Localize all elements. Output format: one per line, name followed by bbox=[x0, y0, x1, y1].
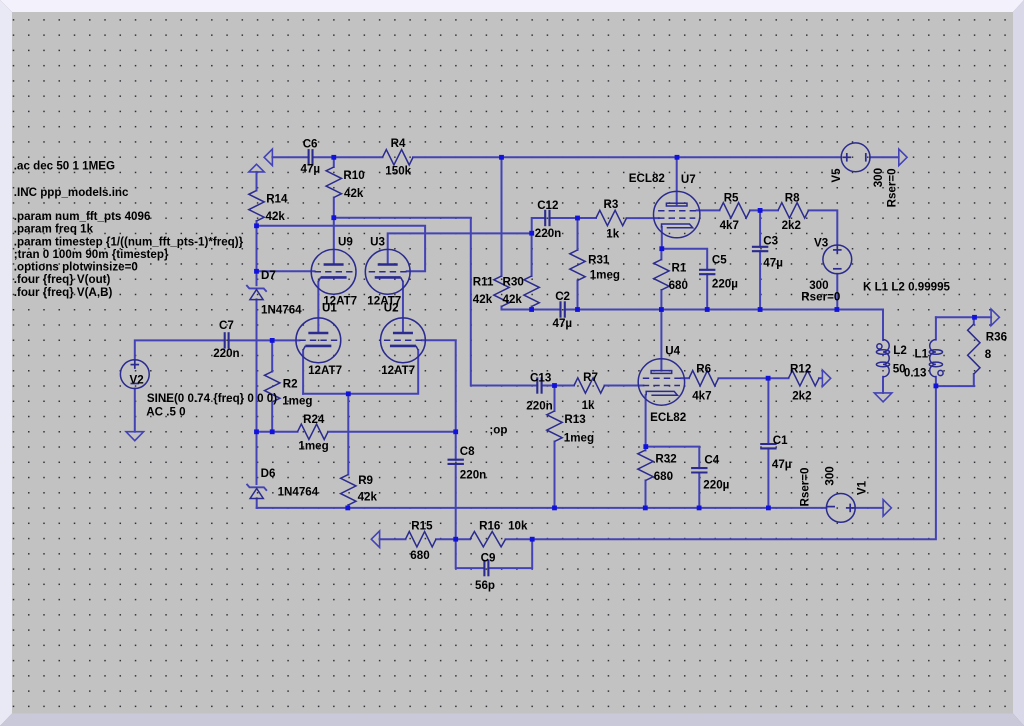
resistor R6 bbox=[689, 371, 719, 386]
wire: R32 top lead bbox=[645, 447, 647, 451]
port arrow input (left) bbox=[264, 149, 272, 166]
wire: U9 grid tap bbox=[257, 270, 315, 272]
resistor R4 bbox=[383, 150, 414, 165]
svg-text:.param freq 1k: .param freq 1k bbox=[14, 223, 94, 236]
svg-text:42k: 42k bbox=[473, 293, 493, 306]
resistor R9 bbox=[341, 475, 356, 506]
wire: R5 to R8 bbox=[750, 209, 778, 211]
wire: R9 top lead bbox=[347, 394, 349, 475]
svg-text:R7: R7 bbox=[583, 371, 598, 384]
window frame bevel bbox=[0, 0, 1024, 12]
svg-text:220µ: 220µ bbox=[712, 278, 738, 291]
capacitor C12 bbox=[544, 210, 546, 226]
resistor R31 bbox=[570, 250, 585, 281]
wire: R11 top lead from B+ rail bbox=[501, 157, 503, 276]
wire: V1 to port arrow bbox=[855, 507, 883, 509]
junction at 935.9,385.9 bbox=[934, 384, 939, 389]
svg-text:R15: R15 bbox=[411, 519, 433, 532]
wire: bottom ground rail bbox=[257, 507, 827, 509]
wire: U7 anode lead bbox=[676, 157, 678, 204]
capacitor C6 bbox=[308, 149, 310, 165]
capacitor C4 bbox=[691, 467, 707, 469]
wire: R30 bottom lead bbox=[531, 307, 533, 310]
svg-text:1k: 1k bbox=[582, 399, 595, 412]
svg-text:V1: V1 bbox=[856, 480, 869, 495]
wire: node to R24 bbox=[257, 431, 298, 433]
svg-text:L2: L2 bbox=[893, 344, 907, 357]
wire: R30 top lead bbox=[531, 233, 533, 276]
svg-text:R12: R12 bbox=[790, 362, 811, 375]
resistor R16 bbox=[470, 532, 506, 547]
voltage source V5 bbox=[841, 143, 870, 172]
svg-text:R36: R36 bbox=[986, 330, 1008, 343]
wire: R36 top lead bbox=[973, 317, 975, 324]
port arrow V1 right bbox=[883, 500, 891, 517]
capacitor C9 bbox=[483, 560, 485, 576]
resistor R2 bbox=[265, 372, 280, 403]
wire: C3 bottom lead bbox=[759, 251, 761, 309]
L1 phase dot bbox=[938, 370, 943, 375]
svg-text:.four {freq} V(out): .four {freq} V(out) bbox=[14, 273, 111, 286]
svg-text:.param timestep {1/((num_fft_p: .param timestep {1/((num_fft_pts-1)*freq… bbox=[14, 235, 244, 248]
svg-text:42k: 42k bbox=[344, 187, 364, 200]
svg-text:K L1 L2 0.99995: K L1 L2 0.99995 bbox=[863, 280, 951, 293]
svg-text:;tran 0 100m 90m {timestep}: ;tran 0 100m 90m {timestep} bbox=[14, 248, 169, 261]
pentode U7 ECL82 bbox=[654, 191, 700, 237]
ground symbol at L2 bbox=[874, 393, 892, 402]
wire: R3 to U7 grid bbox=[627, 217, 659, 219]
triode U2 12AT7 bbox=[381, 318, 426, 363]
resistor R12 bbox=[789, 371, 820, 386]
port arrow R14 top bbox=[249, 164, 264, 172]
wire: R32 bottom lead bbox=[645, 481, 647, 508]
voltage source V1 bbox=[826, 494, 855, 523]
port arrow output right bbox=[991, 309, 999, 326]
wire: node to C9 bbox=[456, 539, 485, 568]
wire: R36 bottom to L1 bbox=[936, 374, 974, 386]
port arrow R15 left bbox=[371, 531, 379, 548]
wire: D7 anode down bbox=[256, 299, 258, 431]
svg-text:220n: 220n bbox=[535, 227, 561, 240]
svg-text:300: 300 bbox=[872, 168, 885, 187]
wire: feedback to L1 bottom bbox=[506, 386, 936, 539]
junction at 554.5,507.9 bbox=[552, 506, 557, 511]
svg-text:R13: R13 bbox=[564, 413, 586, 426]
wire: C1 bottom lead bbox=[767, 448, 769, 508]
junction at 760.1,309.5 bbox=[758, 307, 763, 312]
port arrow R12 right bbox=[822, 370, 830, 387]
svg-text:SINE(0 0.74 {freq} 0 0 0): SINE(0 0.74 {freq} 0 0 0) bbox=[147, 392, 277, 405]
svg-text:1meg: 1meg bbox=[298, 440, 328, 453]
wire: rail to U4 anode bbox=[660, 310, 662, 371]
svg-text:V2: V2 bbox=[130, 373, 144, 386]
svg-text:U1: U1 bbox=[322, 302, 337, 315]
svg-text:AC .5 0: AC .5 0 bbox=[146, 406, 185, 419]
resistor R10 bbox=[326, 167, 341, 198]
wire: cathode rail U1-U2 bbox=[303, 350, 418, 394]
svg-text:C4: C4 bbox=[704, 453, 719, 466]
svg-text:C5: C5 bbox=[712, 253, 727, 266]
svg-text:C1: C1 bbox=[773, 434, 788, 447]
svg-text:1meg: 1meg bbox=[564, 432, 594, 445]
svg-text:56p: 56p bbox=[475, 579, 495, 592]
svg-text:;op: ;op bbox=[489, 424, 507, 437]
wire: R11 bottom lead bbox=[501, 307, 503, 310]
svg-text:.param num_fft_pts 4096: .param num_fft_pts 4096 bbox=[14, 210, 151, 223]
svg-text:4k7: 4k7 bbox=[720, 219, 739, 232]
wire: V5 to output arrow bbox=[870, 156, 899, 158]
svg-text:L1: L1 bbox=[915, 348, 929, 361]
zener diode D6 1N4764 bbox=[247, 484, 267, 491]
junction at 645.8,446.6 bbox=[643, 444, 648, 449]
resistor R11 bbox=[494, 276, 509, 307]
wire: U3 cathode to U2 anode bbox=[402, 282, 404, 333]
junction at 256.5,271.3 bbox=[254, 269, 259, 274]
resistor R1 bbox=[654, 260, 669, 291]
capacitor C1 bbox=[760, 443, 776, 445]
wire: R14 bottom lead bbox=[256, 221, 258, 226]
svg-text:12AT7: 12AT7 bbox=[308, 364, 342, 377]
wire: C3 top lead bbox=[759, 210, 761, 246]
triode U9 12AT7 bbox=[311, 249, 356, 294]
junction at 333.8,157.3 bbox=[331, 155, 336, 160]
svg-text:D6: D6 bbox=[261, 467, 276, 480]
svg-text:R10: R10 bbox=[343, 169, 364, 182]
wire: U9 cathode to U1 anode bbox=[317, 282, 319, 333]
triode U1 12AT7 bbox=[296, 318, 341, 363]
junction at 836.9,309.5 bbox=[835, 307, 840, 312]
wire: U9 anode lead bbox=[333, 218, 335, 265]
junction at 333.8,217.7 bbox=[331, 215, 336, 220]
svg-text:47µ: 47µ bbox=[763, 257, 783, 270]
wire: C7 to U1 grid bbox=[229, 339, 300, 341]
wire: R14 top lead bbox=[256, 172, 258, 191]
svg-text:U9: U9 bbox=[338, 235, 353, 248]
resistor R30 bbox=[524, 276, 539, 307]
wire: R10 bottom lead bbox=[333, 198, 335, 218]
resistor R36 bbox=[968, 324, 980, 374]
svg-text:2k2: 2k2 bbox=[782, 219, 801, 232]
wire: R13 bottom lead bbox=[554, 442, 556, 508]
wire: L2 to ground bbox=[882, 377, 884, 393]
svg-text:R4: R4 bbox=[391, 137, 406, 150]
junction at 501.5,157.3 bbox=[499, 155, 504, 160]
pentode U4 ECL82 bbox=[638, 359, 684, 405]
svg-text:ECL82: ECL82 bbox=[629, 172, 665, 185]
svg-text:R24: R24 bbox=[303, 413, 325, 426]
svg-text:42k: 42k bbox=[358, 490, 378, 503]
L2 phase dot bbox=[877, 344, 882, 349]
wire: U1 cathode lead bbox=[302, 350, 304, 394]
svg-text:R16: R16 bbox=[479, 519, 501, 532]
svg-text:47µ: 47µ bbox=[553, 317, 573, 330]
svg-text:10k: 10k bbox=[508, 519, 528, 532]
svg-text:220n: 220n bbox=[213, 347, 239, 360]
ground symbol at V2 bbox=[126, 432, 144, 441]
wire: C6 to R4 bbox=[313, 156, 383, 158]
junction at 645.3,507.9 bbox=[643, 506, 648, 511]
wire: U7 cathode lead bbox=[661, 227, 663, 249]
wire: rail to C2 bbox=[502, 309, 561, 311]
wire: V2 to C7 bbox=[135, 340, 225, 359]
svg-text:U7: U7 bbox=[681, 173, 696, 186]
svg-text:220n: 220n bbox=[460, 469, 486, 482]
wire: L1 top lead bbox=[935, 317, 937, 339]
svg-text:1N4764: 1N4764 bbox=[261, 303, 302, 316]
svg-text:8: 8 bbox=[985, 348, 992, 361]
wire: port arrow to R15 bbox=[380, 538, 406, 540]
wire: R14 node to U3 grid bbox=[257, 226, 426, 271]
svg-text:R1: R1 bbox=[672, 261, 687, 274]
triode U3 12AT7 bbox=[365, 249, 410, 294]
svg-text:R32: R32 bbox=[655, 453, 676, 466]
svg-text:.INC ppp_models.inc: .INC ppp_models.inc bbox=[14, 186, 129, 199]
svg-text:R8: R8 bbox=[785, 192, 800, 205]
svg-text:C8: C8 bbox=[460, 445, 475, 458]
junction at 768.4,507.9 bbox=[766, 506, 771, 511]
wire: R15 to R16 bbox=[436, 538, 470, 540]
junction at 455.7,431.8 bbox=[453, 429, 458, 434]
svg-text:V3: V3 bbox=[814, 237, 829, 250]
junction at 256.5,431.8 bbox=[254, 429, 259, 434]
wire: R2 top lead bbox=[271, 340, 273, 371]
wire: C4 bottom lead bbox=[698, 473, 700, 508]
svg-text:220n: 220n bbox=[526, 399, 552, 412]
junction at 577.5,218 bbox=[575, 216, 580, 221]
junction at 661.8,248.7 bbox=[659, 246, 664, 251]
resistor R15 bbox=[406, 532, 437, 547]
svg-text:12AT7: 12AT7 bbox=[381, 364, 415, 377]
junction at 661.4,309.5 bbox=[659, 307, 664, 312]
wire: R12 to arrow bbox=[819, 377, 822, 379]
wire: node to D7 cathode bbox=[256, 226, 258, 285]
voltage source V2 bbox=[120, 360, 149, 389]
svg-text:C13: C13 bbox=[530, 371, 552, 384]
capacitor C5 bbox=[699, 269, 715, 271]
wire: R7 to U4 grid bbox=[605, 385, 644, 387]
capacitor C2 bbox=[559, 301, 561, 317]
svg-text:R11: R11 bbox=[473, 276, 494, 289]
svg-text:.ac dec 50 1 1MEG: .ac dec 50 1 1MEG bbox=[14, 160, 115, 173]
wire: mid rail to L2 bbox=[565, 310, 883, 340]
svg-text:C7: C7 bbox=[219, 319, 234, 332]
wire: C1 top lead bbox=[767, 378, 769, 444]
wire: R24 to C8 node bbox=[328, 431, 456, 433]
svg-text:Rser=0: Rser=0 bbox=[799, 468, 812, 507]
junction at 768.1,378.2 bbox=[766, 376, 771, 381]
junction at 348.3,393.8 bbox=[346, 391, 351, 396]
svg-text:Rser=0: Rser=0 bbox=[885, 168, 898, 207]
wire: R6 to R12 bbox=[719, 377, 789, 379]
wire: cathode node to C5 bbox=[662, 249, 707, 270]
wire: U4 screen to R6 bbox=[681, 377, 689, 379]
svg-text:C9: C9 bbox=[481, 552, 496, 565]
junction at 699.1,507.9 bbox=[697, 506, 702, 511]
svg-text:.options plotwinsize=0: .options plotwinsize=0 bbox=[14, 261, 138, 274]
svg-text:U2: U2 bbox=[384, 302, 399, 315]
svg-text:680: 680 bbox=[669, 279, 688, 292]
capacitor C3 bbox=[752, 246, 768, 248]
wire: C13 to R7 node bbox=[542, 385, 574, 387]
inductor L1 bbox=[930, 340, 936, 377]
svg-text:47µ: 47µ bbox=[772, 458, 792, 471]
wire: U7 screen to R5 bbox=[697, 209, 720, 211]
svg-text:4k7: 4k7 bbox=[692, 389, 711, 402]
svg-text:C12: C12 bbox=[537, 199, 558, 212]
svg-text:1meg: 1meg bbox=[590, 269, 620, 282]
wire: down to D6 bbox=[256, 432, 258, 484]
wire: C9 to node bbox=[488, 539, 532, 568]
wire: L1 to output port bbox=[936, 316, 991, 318]
wire: R4 to V5 (top rail) bbox=[413, 156, 841, 158]
zener diode D7 1N4764 bbox=[246, 285, 266, 292]
wire: V2 to ground bbox=[134, 389, 136, 432]
wire: D6 to ground rail bbox=[256, 498, 258, 508]
wire: input port to C6 bbox=[272, 156, 308, 158]
svg-text:150k: 150k bbox=[385, 165, 411, 178]
wire: R31 bottom lead bbox=[577, 281, 579, 310]
wire: R1 bottom lead bbox=[660, 290, 662, 310]
junction at 760.1,210.4 bbox=[758, 208, 763, 213]
svg-text:R2: R2 bbox=[283, 378, 298, 391]
wire: R9 bottom lead bbox=[347, 505, 349, 508]
svg-text:R3: R3 bbox=[604, 198, 619, 211]
junction at 455.7,539.2 bbox=[453, 537, 458, 542]
port arrow V5 right bbox=[899, 149, 907, 166]
svg-text:Rser=0: Rser=0 bbox=[801, 291, 840, 304]
capacitor C13 bbox=[536, 377, 538, 393]
wire: R31 top lead bbox=[577, 218, 579, 250]
svg-text:.four {freq} V(A,B): .four {freq} V(A,B) bbox=[14, 286, 113, 299]
svg-text:D7: D7 bbox=[261, 269, 276, 282]
junction at 531.7,233.2 bbox=[529, 231, 534, 236]
junction at 707.2,309.5 bbox=[705, 307, 710, 312]
svg-text:ECL82: ECL82 bbox=[650, 411, 686, 424]
junction at 531.6,309.5 bbox=[529, 307, 534, 312]
svg-text:U3: U3 bbox=[370, 235, 385, 248]
svg-text:42k: 42k bbox=[503, 293, 523, 306]
wire: C5 bottom lead bbox=[706, 274, 708, 309]
junction at 347.8,507.9 bbox=[345, 506, 350, 511]
svg-text:R31: R31 bbox=[588, 253, 610, 266]
resistor R13 bbox=[547, 411, 562, 442]
resistor R8 bbox=[778, 203, 809, 218]
svg-text:R6: R6 bbox=[696, 362, 711, 375]
wire: C8 to feedback node bbox=[455, 464, 457, 539]
svg-text:C6: C6 bbox=[303, 137, 318, 150]
svg-text:680: 680 bbox=[654, 470, 673, 483]
svg-text:1N4764: 1N4764 bbox=[278, 485, 319, 498]
voltage source V3 bbox=[823, 245, 852, 274]
resistor R3 bbox=[596, 210, 627, 225]
junction at 577.5,309.5 bbox=[575, 307, 580, 312]
resistor R14 bbox=[249, 191, 264, 222]
svg-text:C3: C3 bbox=[763, 234, 778, 247]
resistor R7 bbox=[574, 378, 605, 393]
junction at 532.2,539.2 bbox=[530, 537, 535, 542]
wire: R1 top lead bbox=[660, 249, 662, 260]
junction at 272.2,431.8 bbox=[270, 429, 275, 434]
wire: L1 bottom lead bbox=[935, 377, 937, 386]
resistor R24 bbox=[298, 424, 329, 439]
wire: U3 anode node to C12 bbox=[532, 218, 546, 233]
svg-text:V5: V5 bbox=[830, 168, 843, 183]
svg-text:220µ: 220µ bbox=[703, 479, 729, 492]
wire: R10 top lead bbox=[333, 157, 335, 167]
capacitor C8 bbox=[448, 459, 464, 461]
wire: R8 to V3 bbox=[809, 210, 838, 245]
junction at 974.5,317.3 bbox=[972, 315, 977, 320]
svg-text:2k2: 2k2 bbox=[792, 389, 811, 402]
wire: R10 node to C13 bbox=[334, 218, 538, 386]
svg-text:R30: R30 bbox=[503, 276, 524, 289]
svg-text:U4: U4 bbox=[665, 344, 680, 357]
svg-text:680: 680 bbox=[410, 549, 429, 562]
svg-text:1k: 1k bbox=[606, 228, 619, 241]
svg-text:47µ: 47µ bbox=[301, 163, 321, 176]
resistor R32 bbox=[638, 450, 653, 481]
junction at 677,157.3 bbox=[675, 155, 680, 160]
wire: R13 top lead bbox=[554, 386, 556, 412]
svg-text:C2: C2 bbox=[555, 290, 570, 303]
wire: V3 to rail bbox=[836, 274, 838, 310]
wire: C12 to R3 bbox=[550, 217, 597, 219]
svg-text:42k: 42k bbox=[266, 210, 286, 223]
wire: U3 anode to C12 node bbox=[388, 233, 532, 264]
wire: cathode node to C4 bbox=[646, 447, 700, 469]
junction at 272.2,340.4 bbox=[270, 338, 275, 343]
wire: U4 cathode lead bbox=[645, 395, 647, 446]
svg-text:300: 300 bbox=[824, 466, 837, 485]
resistor R5 bbox=[720, 203, 751, 218]
svg-text:0.13: 0.13 bbox=[904, 367, 927, 380]
junction at 554.5,385.5 bbox=[552, 383, 557, 388]
wire: U2 grid to C8 bbox=[422, 340, 456, 459]
svg-text:1meg: 1meg bbox=[282, 395, 312, 408]
inductor L2 bbox=[883, 340, 889, 377]
capacitor C7 bbox=[224, 332, 226, 348]
wire: R2 bottom lead bbox=[271, 402, 273, 432]
svg-text:R5: R5 bbox=[724, 192, 739, 205]
junction at 256.5,225.8 bbox=[254, 223, 259, 228]
svg-text:R9: R9 bbox=[358, 474, 373, 487]
svg-text:R14: R14 bbox=[266, 193, 288, 206]
